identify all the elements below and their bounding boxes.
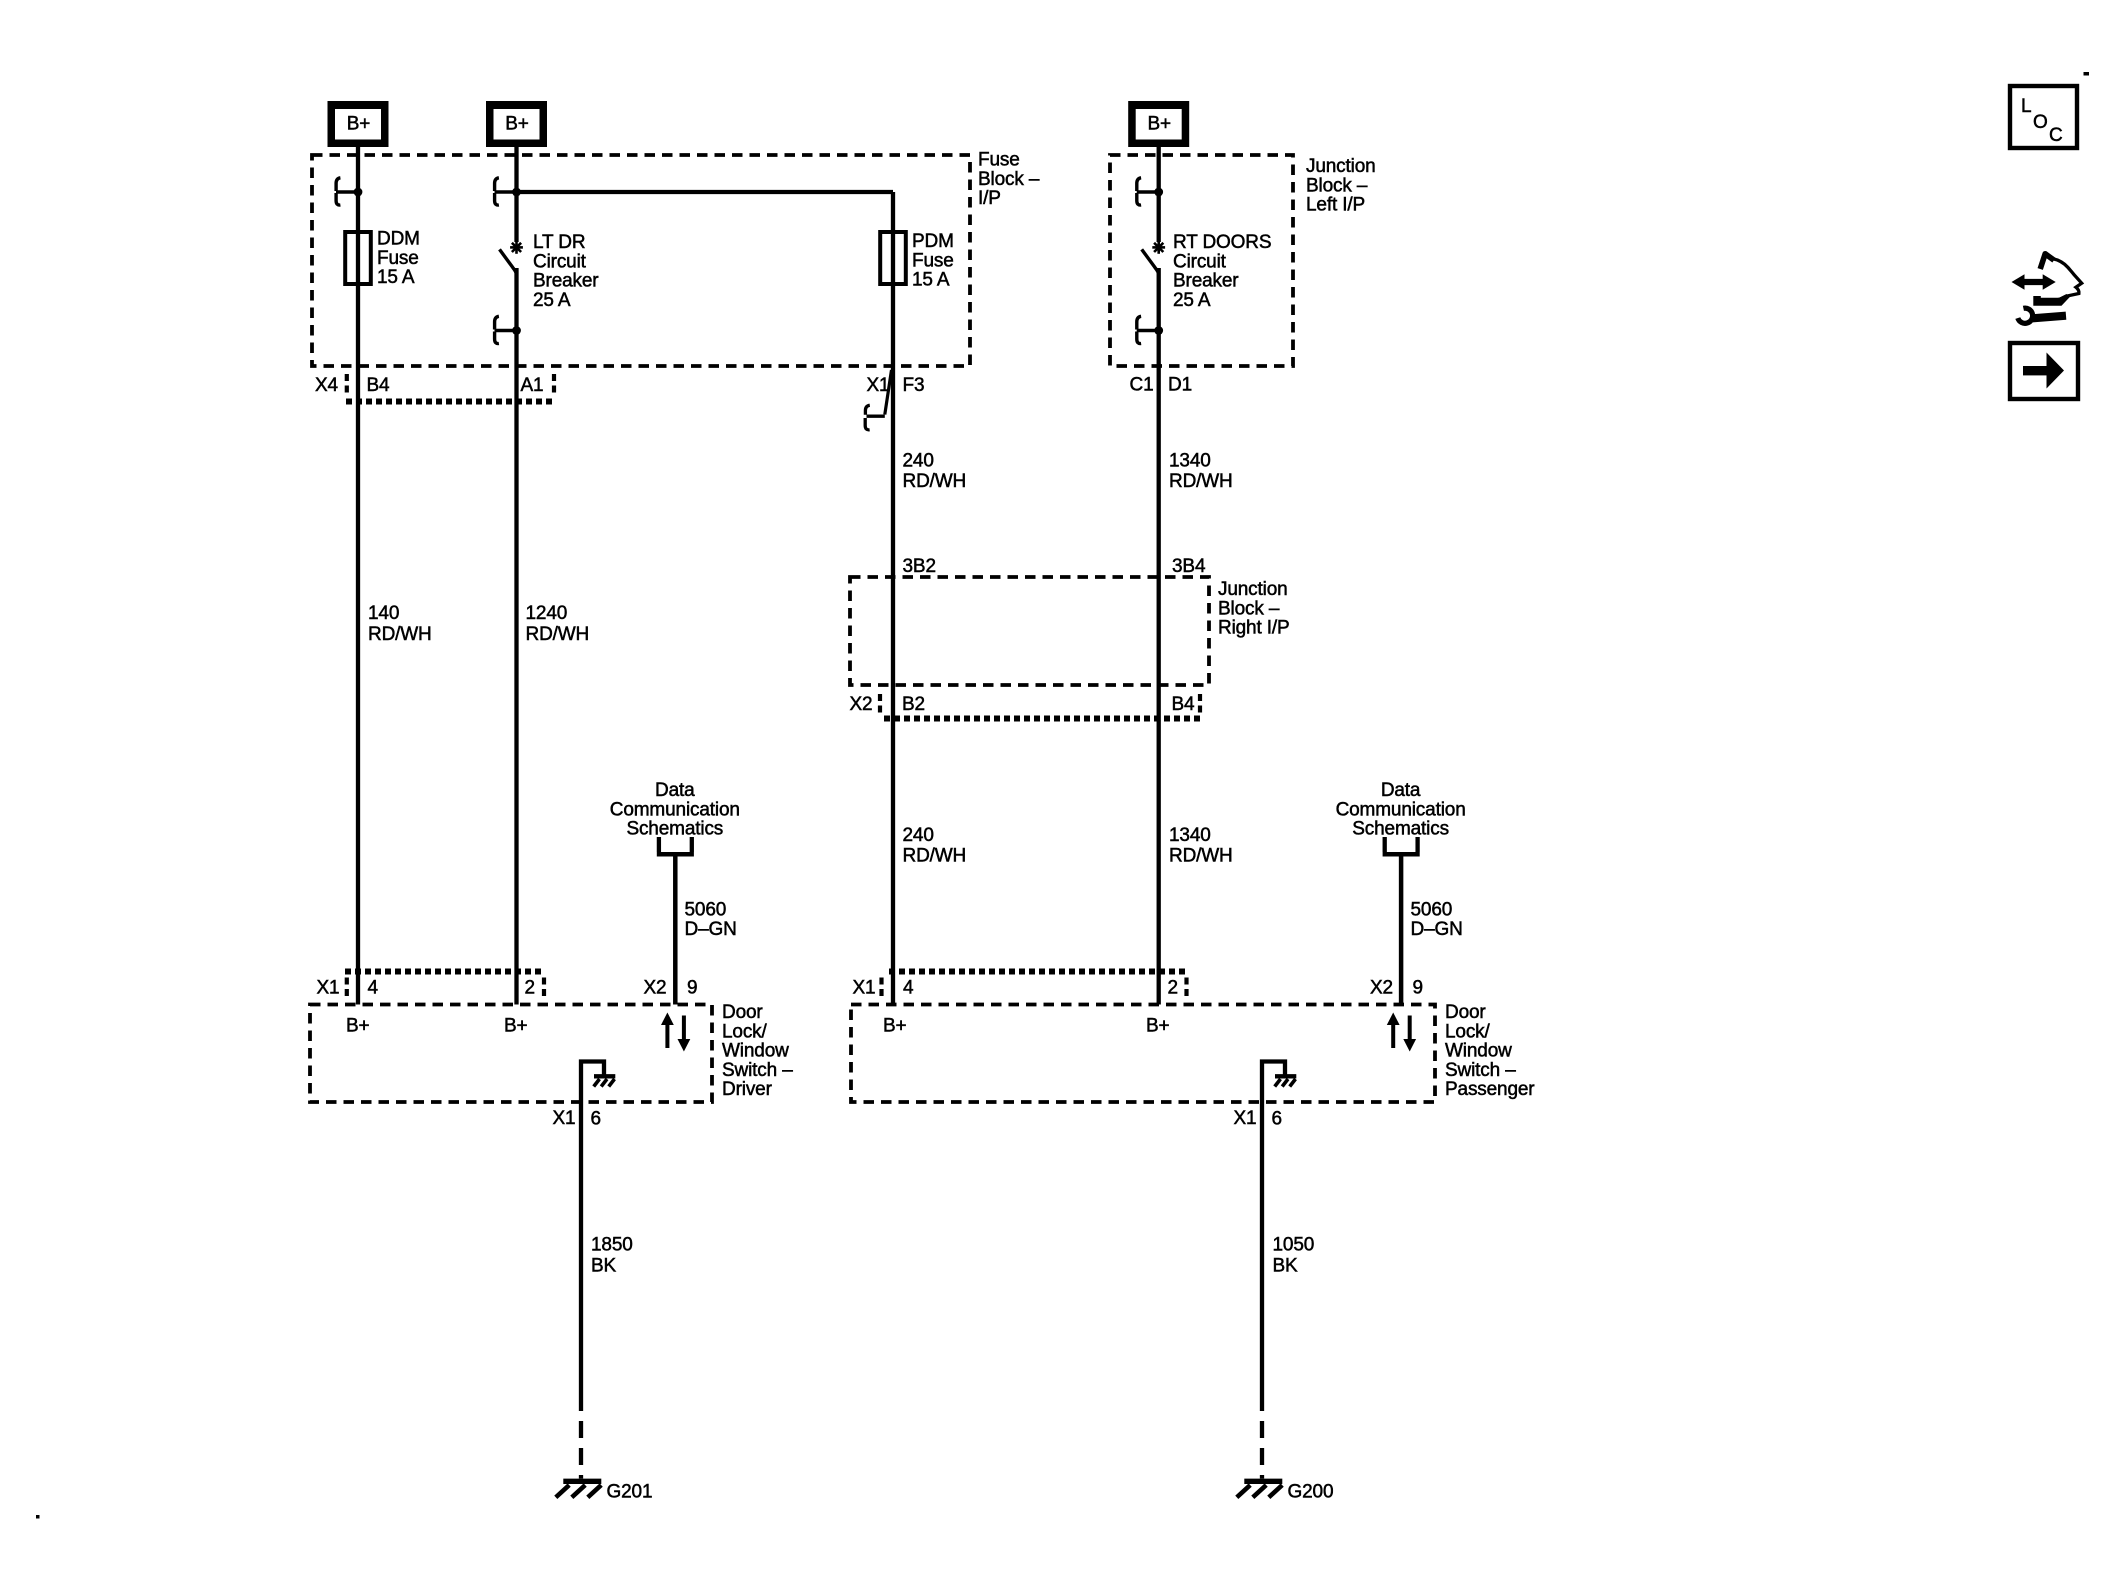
svg-text:X2: X2 bbox=[1370, 978, 1393, 999]
svg-text:25 A: 25 A bbox=[1173, 290, 1211, 311]
svg-text:Junction: Junction bbox=[1218, 579, 1288, 600]
svg-text:25 A: 25 A bbox=[533, 290, 571, 311]
svg-text:B+: B+ bbox=[346, 1016, 370, 1037]
svg-text:4: 4 bbox=[903, 978, 914, 999]
svg-text:Lock/: Lock/ bbox=[722, 1021, 768, 1042]
svg-text:Window: Window bbox=[722, 1041, 789, 1062]
svg-text:Fuse: Fuse bbox=[377, 248, 419, 269]
svg-text:B+: B+ bbox=[1146, 1016, 1170, 1037]
svg-text:Fuse: Fuse bbox=[912, 250, 954, 271]
svg-text:Left I/P: Left I/P bbox=[1306, 195, 1365, 216]
svg-text:240: 240 bbox=[903, 825, 934, 846]
svg-text:PDM: PDM bbox=[912, 231, 954, 252]
svg-text:DDM: DDM bbox=[377, 229, 420, 250]
svg-text:Door: Door bbox=[722, 1002, 763, 1023]
svg-text:140: 140 bbox=[368, 603, 399, 624]
svg-text:X1: X1 bbox=[1234, 1108, 1257, 1129]
svg-text:D–GN: D–GN bbox=[685, 919, 737, 940]
svg-text:B4: B4 bbox=[1172, 694, 1196, 715]
svg-text:Data: Data bbox=[655, 780, 695, 801]
svg-text:D–GN: D–GN bbox=[1411, 919, 1463, 940]
svg-text:Door: Door bbox=[1445, 1002, 1486, 1023]
svg-text:I/P: I/P bbox=[978, 188, 1001, 209]
svg-text:6: 6 bbox=[1272, 1109, 1282, 1130]
svg-text:G200: G200 bbox=[1288, 1482, 1334, 1503]
svg-text:15 A: 15 A bbox=[377, 267, 415, 288]
svg-text:1240: 1240 bbox=[526, 603, 568, 624]
svg-text:X2: X2 bbox=[850, 694, 873, 715]
svg-text:Switch –: Switch – bbox=[1445, 1060, 1516, 1081]
svg-text:X2: X2 bbox=[644, 978, 667, 999]
svg-text:LT DR: LT DR bbox=[533, 232, 585, 253]
svg-text:B+: B+ bbox=[1147, 114, 1171, 135]
svg-text:X1: X1 bbox=[317, 978, 340, 999]
svg-text:Fuse: Fuse bbox=[978, 150, 1020, 171]
svg-text:2: 2 bbox=[1168, 978, 1178, 999]
svg-text:RD/WH: RD/WH bbox=[903, 846, 967, 867]
svg-text:RT DOORS: RT DOORS bbox=[1173, 232, 1271, 253]
svg-text:Schematics: Schematics bbox=[626, 819, 723, 840]
svg-text:B+: B+ bbox=[504, 1016, 528, 1037]
svg-text:Data: Data bbox=[1381, 780, 1421, 801]
svg-text:9: 9 bbox=[687, 978, 697, 999]
svg-text:Block –: Block – bbox=[978, 169, 1040, 190]
svg-text:Driver: Driver bbox=[722, 1079, 773, 1100]
svg-text:B4: B4 bbox=[367, 375, 391, 396]
svg-text:5060: 5060 bbox=[685, 900, 727, 921]
svg-text:O: O bbox=[2033, 112, 2048, 133]
svg-text:RD/WH: RD/WH bbox=[368, 624, 432, 645]
svg-text:9: 9 bbox=[1413, 978, 1423, 999]
svg-text:6: 6 bbox=[591, 1109, 601, 1130]
svg-text:4: 4 bbox=[368, 978, 379, 999]
svg-text:Passenger: Passenger bbox=[1445, 1079, 1535, 1100]
svg-text:1340: 1340 bbox=[1169, 451, 1211, 472]
svg-text:L: L bbox=[2021, 96, 2031, 117]
svg-text:F3: F3 bbox=[903, 375, 925, 396]
svg-text:RD/WH: RD/WH bbox=[903, 471, 967, 492]
svg-text:RD/WH: RD/WH bbox=[1169, 846, 1233, 867]
svg-text:3B2: 3B2 bbox=[903, 556, 936, 577]
svg-text:240: 240 bbox=[903, 451, 934, 472]
svg-text:G201: G201 bbox=[607, 1482, 653, 1503]
svg-text:15 A: 15 A bbox=[912, 270, 950, 291]
svg-text:5060: 5060 bbox=[1411, 900, 1453, 921]
svg-text:BK: BK bbox=[591, 1256, 617, 1277]
svg-text:X1: X1 bbox=[853, 978, 876, 999]
svg-text:X1: X1 bbox=[553, 1108, 576, 1129]
svg-text:C1: C1 bbox=[1130, 375, 1154, 396]
svg-text:X4: X4 bbox=[315, 375, 339, 396]
svg-text:Breaker: Breaker bbox=[1173, 271, 1239, 292]
svg-text:1850: 1850 bbox=[591, 1235, 633, 1256]
svg-text:B+: B+ bbox=[347, 114, 371, 135]
svg-text:Communication: Communication bbox=[610, 799, 740, 820]
svg-text:Breaker: Breaker bbox=[533, 271, 599, 292]
svg-text:B2: B2 bbox=[902, 694, 925, 715]
svg-text:2: 2 bbox=[525, 978, 535, 999]
svg-text:Communication: Communication bbox=[1336, 799, 1466, 820]
svg-text:C: C bbox=[2049, 125, 2063, 146]
svg-text:X1: X1 bbox=[867, 375, 890, 396]
svg-text:Right I/P: Right I/P bbox=[1218, 618, 1290, 639]
svg-text:B+: B+ bbox=[883, 1016, 907, 1037]
svg-text:Block –: Block – bbox=[1306, 175, 1368, 196]
svg-text:Schematics: Schematics bbox=[1352, 819, 1449, 840]
svg-text:BK: BK bbox=[1273, 1256, 1299, 1277]
svg-text:B+: B+ bbox=[505, 114, 529, 135]
svg-text:1340: 1340 bbox=[1169, 825, 1211, 846]
svg-text:Window: Window bbox=[1445, 1041, 1512, 1062]
svg-text:Lock/: Lock/ bbox=[1445, 1021, 1491, 1042]
svg-text:Junction: Junction bbox=[1306, 156, 1376, 177]
svg-text:D1: D1 bbox=[1168, 375, 1192, 396]
svg-text:Circuit: Circuit bbox=[533, 251, 587, 272]
svg-text:Circuit: Circuit bbox=[1173, 251, 1227, 272]
svg-text:Switch –: Switch – bbox=[722, 1060, 793, 1081]
svg-text:RD/WH: RD/WH bbox=[1169, 471, 1233, 492]
svg-text:3B4: 3B4 bbox=[1172, 556, 1206, 577]
svg-text:1050: 1050 bbox=[1273, 1235, 1315, 1256]
svg-text:Block –: Block – bbox=[1218, 598, 1280, 619]
svg-text:A1: A1 bbox=[521, 375, 544, 396]
svg-text:RD/WH: RD/WH bbox=[526, 624, 590, 645]
